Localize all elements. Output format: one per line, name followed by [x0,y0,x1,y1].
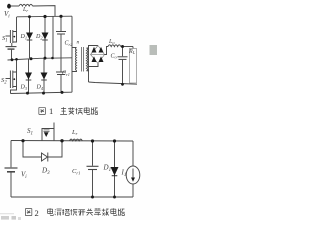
svg-text:D4: D4 [36,85,44,91]
svg-text:n: n [77,40,80,46]
svg-text:Vi: Vi [4,10,10,20]
svg-text:2: 2 [35,208,39,218]
svg-text:1: 1 [49,106,53,116]
svg-text:Lr: Lr [71,129,78,136]
svg-text:RL: RL [128,49,136,55]
svg-text:Vi: Vi [21,171,27,181]
svg-text:D1: D1 [103,164,112,174]
svg-text:Co: Co [111,54,118,60]
svg-text:Cr1: Cr1 [72,168,80,176]
svg-text:D1: D1 [20,34,28,40]
svg-text:D2: D2 [35,34,43,40]
svg-text:Lo: Lo [108,39,115,45]
svg-text:S1: S1 [27,127,33,137]
svg-text:Lr: Lr [22,7,28,13]
svg-text:Cr1: Cr1 [62,71,70,77]
svg-text:D3: D3 [41,167,50,177]
svg-text:D3: D3 [20,85,28,91]
svg-text:I1: I1 [121,169,127,179]
svg-text:Cr2: Cr2 [65,41,74,47]
